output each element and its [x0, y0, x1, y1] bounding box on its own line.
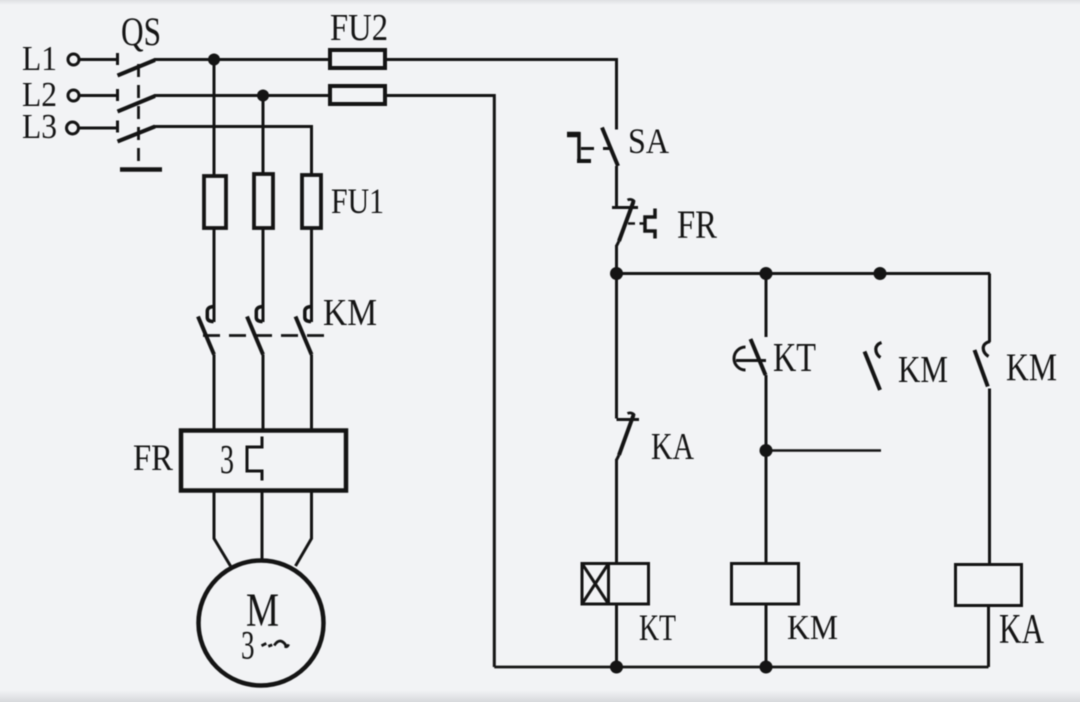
- motor tilde: [262, 641, 289, 647]
- wire FU2b to bottom rail: [385, 96, 494, 668]
- contact KM aux2 blade: [975, 350, 988, 387]
- switch QS pole 1 blade: [118, 60, 156, 76]
- wire L1 terminal to QS: [80, 58, 118, 61]
- svg-text:KA: KA: [651, 426, 694, 468]
- wire KM aux2 to KA coil: [988, 389, 991, 565]
- coil KT X: [582, 564, 609, 605]
- switch SA operator symbol: [567, 132, 580, 138]
- contact KM aux1 blade: [865, 352, 881, 391]
- wire branch1 rail to KA contact: [615, 274, 618, 419]
- wire FR box to motor middle: [261, 491, 264, 561]
- contactor KM main pole 3 fixed contact arc: [305, 307, 311, 322]
- node top rail 1: [610, 267, 623, 280]
- contact KA blade: [619, 415, 634, 455]
- wire branch2 rail to KT contact: [765, 274, 768, 338]
- contact KT bar: [736, 359, 766, 362]
- terminal L1: [68, 54, 79, 65]
- fuse FU1b: [254, 174, 273, 228]
- switch QS pole 2 fixed contact: [116, 89, 119, 101]
- contactor KM main pole 1 blade: [198, 317, 214, 355]
- wire SA to FR contact: [615, 166, 618, 207]
- wire FR contact to top rail: [615, 245, 618, 274]
- svg-text:KT: KT: [639, 608, 676, 649]
- wire KA contact to KT coil: [615, 459, 618, 564]
- node bottom rail 1: [610, 661, 623, 674]
- contact KA bar: [617, 418, 640, 421]
- svg-text:SA: SA: [628, 121, 669, 161]
- wire L3 QS to column 3: [154, 127, 312, 176]
- QS handle bar: [120, 167, 162, 172]
- coil KA box: [956, 565, 1022, 606]
- FR NC contact bar: [612, 206, 638, 209]
- wire column 2 KM to FR box: [262, 355, 265, 431]
- svg-text:L3: L3: [22, 107, 57, 146]
- svg-text:3: 3: [241, 623, 255, 668]
- wire column 1 fuse to KM contact: [213, 228, 216, 322]
- top rail: [617, 272, 991, 275]
- svg-text:KM: KM: [1006, 346, 1057, 389]
- svg-text:KT: KT: [773, 334, 816, 380]
- FR NC contact hook: [628, 199, 635, 202]
- contactor KM main pole 2 fixed contact arc: [256, 307, 262, 322]
- FR heater element: [247, 437, 262, 481]
- wire FR box to motor right: [296, 491, 312, 566]
- fuse FU2a: [330, 50, 385, 68]
- switch QS pole 1 fixed contact: [116, 53, 119, 65]
- node A junction L1: [208, 54, 220, 66]
- wire FR box to motor left: [214, 491, 231, 566]
- QS linkage dashed line: [137, 64, 140, 168]
- svg-text:KM: KM: [323, 292, 377, 334]
- switch QS pole 3 blade: [118, 127, 156, 142]
- svg-text:KM: KM: [898, 349, 948, 391]
- contactor KM main pole 3 blade: [296, 317, 312, 355]
- wire KA coil to bottom rail: [987, 606, 990, 668]
- terminal L3: [67, 122, 79, 134]
- wire FU2a to control column: [385, 60, 617, 130]
- wire mid horizontal stub: [766, 449, 881, 452]
- contact KM aux2 arc: [983, 342, 990, 357]
- FR NC contact blade: [619, 202, 634, 242]
- contact KT delay arc: [734, 347, 745, 370]
- wire column 1 down: [213, 60, 216, 177]
- wire KM coil to bottom rail: [765, 604, 768, 667]
- FR link dashes: [628, 222, 645, 225]
- FR thermal element symbol: [645, 209, 655, 239]
- switch QS pole 2 blade: [118, 96, 156, 112]
- wire L3 terminal to QS: [80, 127, 118, 130]
- wire column 2 fuse to KM contact: [262, 228, 265, 322]
- wire L2 terminal to QS: [80, 94, 118, 97]
- svg-text:FU2: FU2: [330, 7, 388, 49]
- svg-text:FR: FR: [677, 202, 717, 247]
- wire KT contact to KM coil: [765, 375, 768, 564]
- KM main linkage dashed line: [203, 334, 332, 337]
- wire column 3 KM to FR box: [310, 355, 313, 431]
- switch SA blade: [602, 128, 618, 167]
- motor M circle: [199, 561, 324, 686]
- contact KM aux1 arc: [876, 343, 882, 358]
- wire column 2 down: [262, 96, 265, 175]
- coil KT box: [582, 564, 649, 605]
- contact KT blade: [751, 339, 766, 375]
- svg-text:FU1: FU1: [331, 181, 384, 221]
- svg-text:FR: FR: [133, 438, 173, 479]
- node bottom rail 2: [760, 661, 773, 674]
- node top rail 3: [874, 267, 887, 280]
- contact KA jog: [617, 455, 620, 460]
- svg-text:KA: KA: [999, 607, 1044, 653]
- node B junction L2: [257, 90, 269, 102]
- svg-text:QS: QS: [121, 9, 161, 54]
- fuse FU2b: [330, 86, 385, 104]
- wire branch4 rail corner down: [988, 274, 991, 343]
- switch QS pole 3 fixed contact: [116, 121, 119, 133]
- wire column 1 KM to FR box: [213, 355, 216, 431]
- node top rail 2: [760, 267, 773, 280]
- thermal relay FR box: [181, 431, 346, 491]
- terminal L2: [68, 90, 79, 101]
- bottom rail: [494, 666, 988, 669]
- FR NC blade to wire jog: [617, 241, 620, 246]
- wire KT coil to bottom rail: [615, 604, 618, 667]
- fuse FU1a: [204, 176, 226, 228]
- contactor KM main pole 2 blade: [247, 317, 263, 355]
- coil KM box: [732, 564, 799, 605]
- wire L2 QS to node B: [154, 94, 330, 97]
- coil KT divider: [607, 564, 610, 605]
- svg-text:L1: L1: [22, 39, 57, 78]
- svg-text:3: 3: [220, 436, 234, 482]
- contact KA hook: [628, 413, 635, 416]
- fuse FU1c: [302, 175, 321, 228]
- wire L1 QS to node A: [154, 58, 330, 61]
- node branch2 mid: [760, 444, 773, 457]
- svg-text:KM: KM: [787, 608, 838, 647]
- contactor KM main pole 1 fixed contact arc: [207, 307, 213, 322]
- wire column 3 fuse to KM contact: [310, 228, 313, 322]
